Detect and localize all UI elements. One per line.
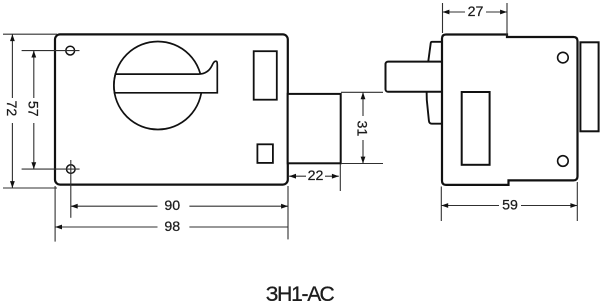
extension line 98 left bbox=[54, 186, 56, 242]
crosshair vertical / extension 90 left bbox=[70, 160, 72, 218]
left view lock body bbox=[55, 34, 288, 184]
knob handle lever bbox=[114, 61, 217, 93]
extension line 31 bottom bbox=[341, 163, 383, 165]
dimension line 31 bbox=[361, 92, 366, 163]
dimension line 90 bbox=[71, 204, 288, 209]
extension line 59 right bbox=[576, 182, 578, 221]
dimension text 72 bbox=[3, 101, 19, 117]
side view top screw circle bbox=[558, 52, 569, 63]
title label ZN1-AC bbox=[266, 283, 335, 301]
extension line 57 top through hole bbox=[22, 50, 80, 52]
svg-text:ЗН1-АС: ЗН1-АС bbox=[266, 283, 335, 301]
stop small rectangle bbox=[257, 144, 273, 163]
side view lock body with steps bbox=[442, 35, 578, 185]
dimension text 57 bbox=[24, 101, 40, 117]
side view bolt bbox=[386, 62, 444, 92]
dimension text 22 bbox=[308, 168, 324, 184]
svg-text:57: 57 bbox=[24, 101, 40, 117]
side view strike plate right bbox=[580, 42, 598, 131]
knob circle bbox=[114, 42, 202, 130]
extension line 72 top bbox=[3, 33, 57, 35]
svg-text:72: 72 bbox=[3, 101, 19, 117]
dimension text 59 bbox=[502, 198, 518, 214]
bottom screw hole bbox=[67, 165, 76, 174]
extension line 59 left bbox=[440, 187, 442, 222]
svg-text:27: 27 bbox=[468, 4, 484, 20]
svg-text:31: 31 bbox=[354, 121, 370, 137]
svg-text:22: 22 bbox=[308, 168, 324, 184]
side view bottom screw circle bbox=[558, 156, 569, 167]
dimension line 22 bbox=[289, 174, 339, 179]
side view bolt tail wedge bbox=[426, 42, 442, 124]
svg-text:90: 90 bbox=[164, 198, 180, 214]
dimension line 72 bbox=[10, 34, 15, 188]
svg-text:59: 59 bbox=[502, 198, 518, 214]
extension line 57 bottom / crosshair horizontal bbox=[22, 168, 80, 170]
dimension line 57 bbox=[31, 51, 36, 170]
dimension text 31 bbox=[354, 121, 370, 137]
extension line 31 top bbox=[341, 91, 383, 93]
svg-text:98: 98 bbox=[164, 219, 180, 235]
dimension text 98 bbox=[164, 219, 180, 235]
side view keyhole rectangle bbox=[462, 92, 490, 165]
extension line 27 right bbox=[506, 3, 508, 36]
dimension line 59 bbox=[441, 203, 577, 208]
extension line 22 right bbox=[339, 164, 341, 191]
cam tall rectangle bbox=[254, 51, 277, 99]
top screw hole bbox=[66, 46, 75, 55]
latch bolt box bbox=[288, 94, 341, 163]
extension line 27 left bbox=[442, 3, 444, 33]
dimension text 90 bbox=[164, 198, 180, 214]
extension line right edge below body bbox=[287, 186, 289, 239]
dimension line 27 bbox=[443, 10, 508, 15]
dimension text 27 bbox=[468, 4, 484, 20]
dimension line 98 bbox=[55, 225, 288, 230]
extension line 72 bottom bbox=[3, 187, 57, 189]
